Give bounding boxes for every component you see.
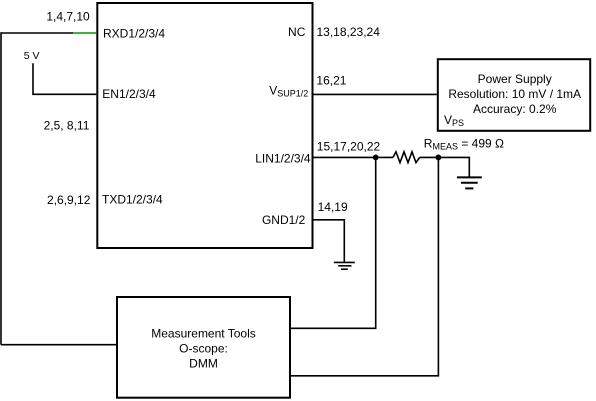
svg-text:15,17,20,22: 15,17,20,22 [317,140,381,154]
svg-text:RXD1/2/3/4: RXD1/2/3/4 [103,27,165,41]
ground (GND1/2) [334,262,355,269]
wire node A down to Measurement Tools [291,157,376,328]
wire loopback to Measurement Tools [1,344,116,346]
svg-text:Accuracy: 0.2%: Accuracy: 0.2% [473,102,557,116]
Power Supply box [438,59,590,131]
svg-text:16,21: 16,21 [316,74,346,88]
svg-text:GND1/2: GND1/2 [262,213,306,227]
svg-text:14,19: 14,19 [318,200,348,214]
wire RXD green segment into pin [73,32,96,34]
svg-text:2,6,9,12: 2,6,9,12 [47,193,91,207]
svg-text:NC: NC [288,25,306,39]
svg-text:LIN1/2/3/4: LIN1/2/3/4 [255,151,311,165]
Measurement Tools box [117,297,290,398]
svg-text:Power Supply: Power Supply [478,72,552,86]
IC U1 (LIN transceiver box) [97,3,312,248]
wire RXD black segment [1,32,73,34]
svg-text:5 V: 5 V [24,50,40,62]
wire resistor to ground [420,157,470,177]
svg-text:O-scope:: O-scope: [179,342,228,356]
svg-text:Resolution: 10 mV / 1mA: Resolution: 10 mV / 1mA [448,87,581,101]
junction node A (LIN sense) [373,155,379,161]
svg-text:13,18,23,24: 13,18,23,24 [317,25,381,39]
svg-text:EN1/2/3/4: EN1/2/3/4 [102,87,156,101]
svg-text:1,4,7,10: 1,4,7,10 [46,10,90,24]
resistor RMEAS zigzag [393,152,420,163]
wire node B down to Measurement Tools [291,157,438,375]
wire left vertical RXD loopback [0,32,2,345]
svg-text:TXD1/2/3/4: TXD1/2/3/4 [102,193,163,207]
wire VSUP to Power Supply [314,93,437,95]
ground (RMEAS) [457,177,482,188]
svg-text:2,5, 8,11: 2,5, 8,11 [44,119,90,133]
svg-text:Measurement Tools: Measurement Tools [151,327,256,341]
junction node B (after resistor) [436,155,442,161]
svg-text:DMM: DMM [189,356,218,370]
wire GND pin to ground [314,220,345,262]
wire LIN pin to resistor [314,156,394,158]
wire 5V to EN pin [33,63,96,94]
